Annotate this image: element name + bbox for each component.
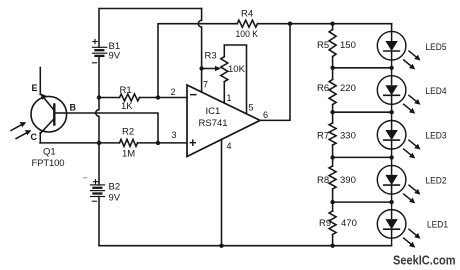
svg-text:330: 330 <box>340 131 356 142</box>
node: wiper/pin7 junction <box>199 66 203 70</box>
svg-text:LED1: LED1 <box>427 220 448 231</box>
resistor R2 1M <box>120 139 138 146</box>
node: R6/R7 junction <box>330 110 334 114</box>
svg-text:2: 2 <box>171 87 176 97</box>
svg-text:R2: R2 <box>122 127 134 138</box>
svg-text:R5: R5 <box>317 40 329 51</box>
Q1 base lead <box>54 112 66 114</box>
svg-text:R4: R4 <box>241 8 253 19</box>
wire: R3 wiper arm from pin 7 node <box>202 68 218 70</box>
svg-text:150: 150 <box>340 40 356 51</box>
Q1 base bar <box>53 105 55 125</box>
wire: feedback line from pin2 node riser through R4 to LED5 top <box>158 24 237 98</box>
wire: left rail R2 node down to B2 <box>98 143 100 185</box>
node: R9 bottom junction <box>330 244 334 248</box>
LED LED2 <box>377 165 420 203</box>
wire: pin 4 down to bottom rail <box>221 139 223 245</box>
svg-text:R3: R3 <box>205 51 217 62</box>
LED LED3 <box>377 121 420 159</box>
svg-text:LED4: LED4 <box>426 86 447 97</box>
svg-text:−: − <box>190 87 198 102</box>
light arrow 2 into Q1 <box>16 132 28 138</box>
Q1 collector lead <box>39 133 41 143</box>
transistor Q1 FPT100 body circle <box>31 96 67 132</box>
wire: base jumper from Q1 base to pin 3 node <box>67 113 159 143</box>
battery B2 plates <box>91 185 105 197</box>
node: LED5/LED4 junction <box>389 66 393 70</box>
svg-text:6: 6 <box>263 110 268 120</box>
svg-text:LED3: LED3 <box>426 131 447 142</box>
wire: chain R5 top/bottom leads <box>332 24 334 30</box>
svg-text:R8: R8 <box>317 175 329 186</box>
node: rail/R2 junction <box>97 141 101 145</box>
svg-text:10K: 10K <box>228 64 246 75</box>
svg-text:R7: R7 <box>317 131 329 142</box>
wire: top-left rail B1+ to pin 7 riser <box>99 9 202 48</box>
svg-text:1: 1 <box>227 93 232 103</box>
resistor R4 100K <box>237 20 257 27</box>
svg-text:R9: R9 <box>319 218 331 229</box>
node: R8/R9 junction <box>330 200 334 204</box>
svg-text:9V: 9V <box>109 193 121 204</box>
wire: ladder rung at node C <box>333 156 392 158</box>
Q1 emitter lead <box>39 68 41 95</box>
svg-text:LED5: LED5 <box>426 42 447 53</box>
svg-text:7: 7 <box>203 79 208 89</box>
svg-text:1M: 1M <box>122 149 135 160</box>
Q1 emitter diagonal with arrow <box>42 96 54 111</box>
battery B1 minus mark <box>92 62 96 64</box>
resistor R9 470 <box>329 211 336 235</box>
svg-text:R1: R1 <box>120 85 132 96</box>
resistor R1 1K <box>120 94 140 101</box>
node: LED4/LED3 junction <box>389 110 393 114</box>
node: LED3/LED2 junction <box>389 155 393 159</box>
wire: R3 bottom lead to pin 1 <box>223 82 225 103</box>
svg-text:390: 390 <box>340 175 356 186</box>
op-amp U1 IC1 RS741 triangle <box>187 85 260 157</box>
LED LED5 <box>377 31 420 69</box>
svg-text:B: B <box>70 103 77 113</box>
resistor R5 150 <box>329 30 336 57</box>
node: R5/R6 junction <box>330 66 334 70</box>
node: rail/R1 junction <box>97 95 101 99</box>
wire: pin 3 input line from collector through R2 <box>40 142 120 144</box>
svg-text:220: 220 <box>340 83 356 94</box>
svg-text:SeekIC.com: SeekIC.com <box>393 254 456 268</box>
light arrow 1 into Q1 <box>11 124 23 130</box>
wire: left rail B2- down to bottom rail <box>98 197 100 246</box>
svg-text:E: E <box>32 83 38 93</box>
battery B2 minus mark <box>92 200 96 202</box>
svg-text:4: 4 <box>227 141 232 151</box>
svg-text:5: 5 <box>249 102 254 112</box>
svg-text:1K: 1K <box>121 101 133 112</box>
node: pin2/feedback junction <box>156 95 160 99</box>
LED LED1 <box>377 210 420 248</box>
svg-text:FPT100: FPT100 <box>32 158 65 169</box>
svg-text:3: 3 <box>172 130 177 140</box>
svg-text:470: 470 <box>341 218 357 229</box>
svg-text:C: C <box>31 132 38 142</box>
svg-text:R6: R6 <box>317 83 329 94</box>
wire: ladder rung at node A (R5/R6 junction to LED5/LED4) <box>333 67 392 69</box>
wire: ladder rung at node B <box>333 111 392 113</box>
svg-text:IC1: IC1 <box>206 106 221 117</box>
resistor R8 390 <box>329 166 336 189</box>
wire: pin 2 input line from left rail through R1 <box>99 97 120 99</box>
battery B2 plus mark <box>93 180 97 184</box>
battery B1 plates <box>93 47 107 53</box>
resistor R7 330 <box>329 123 336 145</box>
resistor R6 220 <box>329 80 336 105</box>
svg-text:RS741: RS741 <box>199 118 228 129</box>
stray scan minus mark <box>83 177 87 179</box>
node: R5 top junction <box>330 22 334 26</box>
wire: left rail R1 node to R2 node with hop over base wire <box>96 98 99 143</box>
wire: left rail B1- down to R1 node <box>98 56 100 98</box>
LED LED4 <box>377 76 420 114</box>
node: LED2/LED1 junction <box>389 200 393 204</box>
node: pin4/bottom rail junction <box>219 244 223 248</box>
wire: LED column connecting segments <box>391 60 393 246</box>
wire: R3 top lead to pin 5 riser <box>224 45 246 114</box>
svg-text:LED2: LED2 <box>426 176 447 187</box>
node: R7/R8 junction <box>330 155 334 159</box>
wire: ladder rung at node D <box>333 201 392 203</box>
Q1 collector diagonal <box>40 119 54 134</box>
node: output/feedback junction <box>288 22 292 26</box>
potentiometer R3 10K body <box>221 57 228 82</box>
svg-text:9V: 9V <box>109 50 121 61</box>
wire: output pin 6 to feedback node <box>260 24 290 121</box>
svg-text:100 K: 100 K <box>236 29 259 40</box>
node: pin3/base junction <box>156 141 160 145</box>
R3 wiper arrowhead <box>215 66 221 72</box>
svg-text:Q1: Q1 <box>43 147 56 158</box>
svg-text:+: + <box>189 135 197 150</box>
wire: bottom rail <box>99 245 392 247</box>
battery B1 plus mark <box>93 39 97 43</box>
svg-text:B2: B2 <box>109 181 121 192</box>
wire: pin 7 riser with hop over feedback line <box>198 9 201 93</box>
